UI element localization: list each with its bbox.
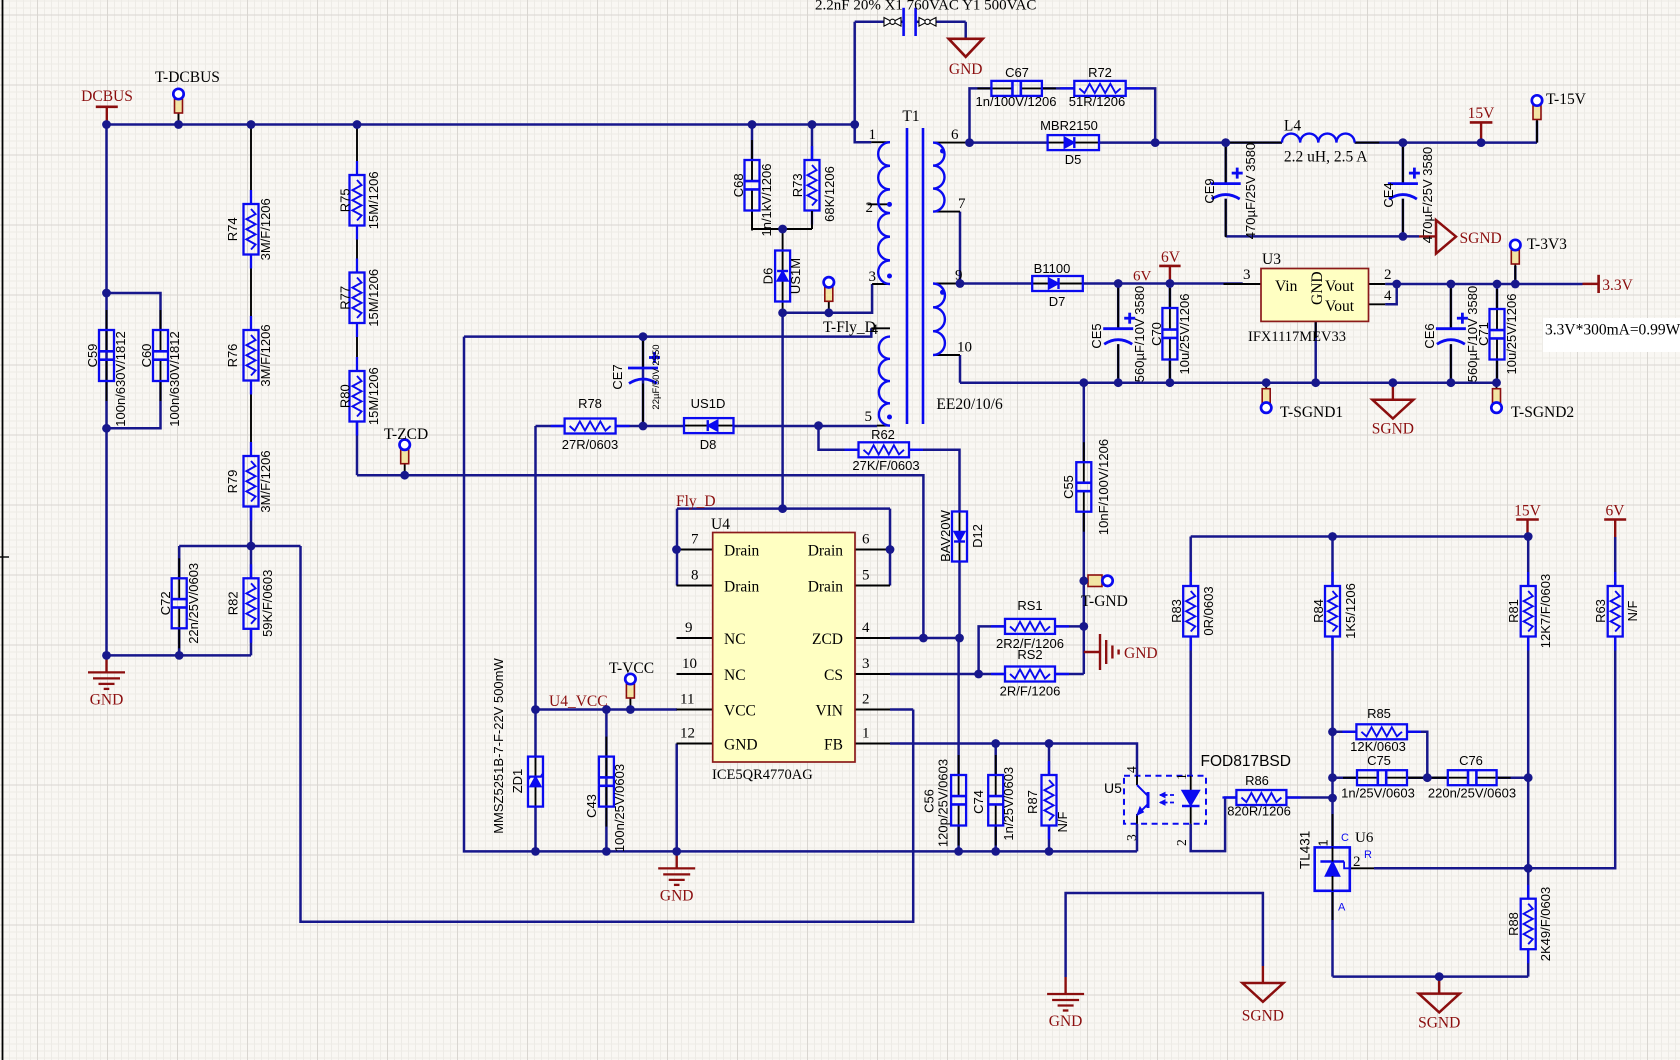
svg-text:SGND: SGND: [1418, 1015, 1460, 1032]
svg-text:470µF/25V 3580: 470µF/25V 3580: [1243, 143, 1258, 239]
svg-text:12K7/F/0603: 12K7/F/0603: [1538, 574, 1553, 648]
svg-text:C: C: [1341, 832, 1349, 844]
svg-text:L4: L4: [1284, 117, 1301, 134]
svg-text:D7: D7: [1049, 294, 1066, 309]
svg-text:R86: R86: [1245, 773, 1269, 788]
svg-text:GND: GND: [1049, 1013, 1083, 1030]
svg-text:C72: C72: [158, 591, 173, 615]
svg-text:R81: R81: [1506, 599, 1521, 623]
svg-text:15V: 15V: [1468, 105, 1496, 122]
svg-text:5: 5: [862, 568, 870, 584]
svg-text:C55: C55: [1061, 475, 1076, 499]
svg-text:1n/1kV/1206: 1n/1kV/1206: [759, 163, 774, 236]
svg-text:10: 10: [957, 340, 972, 356]
svg-text:6V: 6V: [1161, 249, 1181, 266]
svg-text:RS1: RS1: [1017, 598, 1042, 613]
svg-text:GND: GND: [660, 887, 694, 904]
svg-text:DCBUS: DCBUS: [81, 88, 133, 105]
svg-text:15M/1206: 15M/1206: [366, 171, 381, 229]
svg-text:3M/F/1206: 3M/F/1206: [258, 450, 273, 512]
svg-text:22µF/50V 2550: 22µF/50V 2550: [651, 344, 662, 409]
svg-text:2.2 uH, 2.5 A: 2.2 uH, 2.5 A: [1284, 149, 1368, 166]
svg-text:B1100: B1100: [1034, 261, 1071, 276]
svg-text:D6: D6: [761, 268, 776, 285]
svg-text:2: 2: [862, 692, 870, 708]
svg-text:27R/0603: 27R/0603: [562, 437, 618, 452]
svg-text:SGND: SGND: [1372, 421, 1414, 438]
svg-text:CS: CS: [824, 667, 843, 684]
svg-text:R82: R82: [226, 591, 241, 615]
svg-text:U3: U3: [1262, 251, 1281, 268]
svg-text:120p/25V/0603: 120p/25V/0603: [936, 759, 951, 847]
svg-text:15V: 15V: [1514, 503, 1542, 520]
svg-text:820R/1206: 820R/1206: [1227, 804, 1291, 819]
svg-text:CE6: CE6: [1422, 323, 1437, 348]
svg-text:2: 2: [1174, 839, 1189, 846]
svg-text:1: 1: [862, 726, 870, 742]
svg-text:T-SGND1: T-SGND1: [1280, 404, 1343, 421]
svg-text:3: 3: [862, 656, 870, 672]
svg-text:C75: C75: [1367, 753, 1391, 768]
svg-text:R74: R74: [225, 217, 240, 241]
svg-text:T-3V3: T-3V3: [1527, 236, 1567, 253]
svg-text:6V: 6V: [1606, 503, 1626, 520]
svg-text:1n/100V/1206: 1n/100V/1206: [976, 94, 1057, 109]
svg-text:Vout: Vout: [1325, 298, 1355, 315]
svg-text:3.3V: 3.3V: [1602, 277, 1633, 294]
svg-text:2R/F/1206: 2R/F/1206: [1000, 684, 1061, 699]
svg-text:10: 10: [682, 656, 697, 672]
svg-text:Vin: Vin: [1275, 278, 1298, 295]
svg-text:T-DCBUS: T-DCBUS: [155, 69, 220, 86]
svg-text:R76: R76: [225, 344, 240, 368]
svg-text:FOD817BSD: FOD817BSD: [1201, 753, 1291, 770]
svg-text:12K/0603: 12K/0603: [1350, 739, 1406, 754]
svg-text:R72: R72: [1088, 65, 1112, 80]
svg-text:U4_VCC: U4_VCC: [549, 693, 608, 710]
svg-text:VCC: VCC: [724, 703, 756, 720]
svg-text:3M/F/1206: 3M/F/1206: [258, 324, 273, 386]
svg-text:R84: R84: [1311, 599, 1326, 623]
svg-text:4: 4: [862, 620, 870, 636]
svg-text:100n/630V/1812: 100n/630V/1812: [113, 331, 128, 426]
svg-text:1n/25V/0603: 1n/25V/0603: [1341, 786, 1415, 801]
svg-text:NC: NC: [724, 631, 746, 648]
svg-text:5: 5: [865, 409, 873, 425]
svg-text:U6: U6: [1355, 830, 1374, 846]
svg-text:C43: C43: [584, 794, 599, 818]
svg-text:15M/1206: 15M/1206: [366, 367, 381, 425]
svg-text:15M/1206: 15M/1206: [366, 269, 381, 327]
svg-text:8: 8: [691, 568, 699, 584]
svg-text:T-Fly_D: T-Fly_D: [823, 319, 876, 336]
svg-text:560µF/10V 3580: 560µF/10V 3580: [1132, 286, 1147, 382]
svg-text:FB: FB: [824, 737, 843, 754]
svg-text:D8: D8: [700, 437, 717, 452]
svg-text:27K/F/0603: 27K/F/0603: [852, 458, 919, 473]
svg-text:1: 1: [1317, 840, 1331, 847]
svg-text:U4: U4: [711, 516, 730, 533]
svg-text:R78: R78: [578, 396, 602, 411]
svg-text:EE20/10/6: EE20/10/6: [936, 396, 1003, 413]
svg-text:22n/25V/0603: 22n/25V/0603: [186, 563, 201, 644]
svg-text:R77: R77: [338, 286, 353, 310]
svg-text:7: 7: [691, 532, 699, 548]
svg-text:R88: R88: [1506, 912, 1521, 936]
svg-text:R63: R63: [1593, 599, 1608, 623]
svg-text:T-ZCD: T-ZCD: [384, 426, 428, 443]
svg-text:GND: GND: [724, 737, 758, 754]
svg-text:6V: 6V: [1133, 269, 1152, 285]
svg-text:470µF/25V 3580: 470µF/25V 3580: [1420, 147, 1435, 243]
svg-text:R75: R75: [338, 188, 353, 212]
svg-text:1n/25V/0603: 1n/25V/0603: [1001, 767, 1016, 841]
svg-text:IFX1117MEV33: IFX1117MEV33: [1248, 329, 1346, 345]
svg-text:2: 2: [1384, 267, 1392, 283]
svg-text:T-SGND2: T-SGND2: [1511, 404, 1574, 421]
svg-text:RS2: RS2: [1017, 647, 1042, 662]
svg-text:Drain: Drain: [724, 579, 760, 596]
svg-text:C67: C67: [1005, 65, 1029, 80]
svg-text:SGND: SGND: [1460, 230, 1502, 247]
svg-text:10u/25V/1206: 10u/25V/1206: [1504, 294, 1519, 375]
svg-text:VIN: VIN: [815, 703, 843, 720]
svg-text:US1M: US1M: [788, 258, 803, 294]
svg-text:100n/25V/0603: 100n/25V/0603: [612, 764, 627, 852]
svg-text:ZCD: ZCD: [812, 631, 843, 648]
svg-text:R85: R85: [1367, 706, 1391, 721]
svg-text:MMSZ5251B-7-F-22V 500mW: MMSZ5251B-7-F-22V 500mW: [491, 658, 506, 834]
svg-text:ZD1: ZD1: [510, 769, 525, 794]
svg-text:ICE5QR4770AG: ICE5QR4770AG: [712, 767, 813, 783]
svg-text:59K/F/0603: 59K/F/0603: [260, 570, 275, 637]
svg-text:3.3V*300mA=0.99W: 3.3V*300mA=0.99W: [1545, 322, 1680, 339]
svg-text:3: 3: [869, 269, 877, 285]
svg-text:7: 7: [958, 196, 966, 212]
svg-text:12: 12: [680, 726, 695, 742]
svg-text:51R/1206: 51R/1206: [1069, 94, 1125, 109]
svg-text:R83: R83: [1169, 599, 1184, 623]
svg-text:T-VCC: T-VCC: [609, 660, 654, 677]
svg-text:6: 6: [951, 127, 959, 143]
svg-text:TL431: TL431: [1298, 831, 1313, 869]
svg-text:R87: R87: [1025, 790, 1040, 814]
svg-text:Drain: Drain: [808, 543, 844, 560]
svg-text:CE5: CE5: [1089, 323, 1104, 348]
svg-text:10u/25V/1206: 10u/25V/1206: [1177, 294, 1192, 375]
svg-text:T1: T1: [902, 108, 919, 125]
svg-text:Drain: Drain: [724, 543, 760, 560]
svg-text:D12: D12: [970, 524, 985, 548]
svg-text:R80: R80: [338, 384, 353, 408]
svg-text:CE7: CE7: [610, 364, 625, 389]
svg-text:Fly_D: Fly_D: [676, 493, 716, 510]
svg-text:C70: C70: [1149, 322, 1164, 346]
svg-text:1: 1: [1174, 773, 1189, 780]
svg-text:R62: R62: [871, 427, 895, 442]
svg-text:11: 11: [680, 692, 694, 708]
svg-text:1: 1: [869, 127, 877, 143]
svg-text:4: 4: [871, 322, 879, 338]
svg-text:4: 4: [1124, 766, 1139, 773]
svg-text:Drain: Drain: [808, 579, 844, 596]
svg-text:GND: GND: [1309, 271, 1326, 305]
svg-text:R79: R79: [225, 470, 240, 494]
svg-text:GND: GND: [90, 691, 124, 708]
svg-text:C68: C68: [731, 173, 746, 197]
svg-text:C56: C56: [922, 789, 937, 813]
svg-text:9: 9: [685, 620, 693, 636]
svg-text:T-15V: T-15V: [1546, 91, 1587, 108]
svg-text:Vout: Vout: [1325, 278, 1355, 295]
svg-text:100n/630V/1812: 100n/630V/1812: [167, 331, 182, 426]
svg-text:2K49/F/0603: 2K49/F/0603: [1538, 887, 1553, 961]
svg-text:D5: D5: [1065, 152, 1082, 167]
svg-text:6: 6: [862, 532, 870, 548]
svg-text:SGND: SGND: [1242, 1008, 1284, 1025]
svg-text:C71: C71: [1476, 322, 1491, 346]
svg-text:R73: R73: [790, 173, 805, 197]
svg-text:3: 3: [1124, 834, 1139, 841]
svg-text:C76: C76: [1459, 753, 1483, 768]
svg-text:BAV20W: BAV20W: [938, 509, 953, 562]
svg-text:2: 2: [866, 200, 874, 216]
svg-text:10nF/100V/1206: 10nF/100V/1206: [1096, 439, 1111, 535]
svg-text:220n/25V/0603: 220n/25V/0603: [1428, 786, 1516, 801]
svg-text:1K5/1206: 1K5/1206: [1343, 583, 1358, 639]
svg-text:C60: C60: [139, 344, 154, 368]
svg-text:R: R: [1364, 849, 1372, 861]
svg-text:2.2nF 20% X1 760VAC Y1 500VAC: 2.2nF 20% X1 760VAC Y1 500VAC: [815, 0, 1036, 14]
svg-text:CE9: CE9: [1202, 178, 1217, 203]
svg-text:N/F: N/F: [1055, 811, 1070, 832]
svg-text:U5: U5: [1104, 780, 1122, 796]
svg-text:MBR2150: MBR2150: [1040, 118, 1098, 133]
svg-text:US1D: US1D: [691, 396, 726, 411]
svg-text:GND: GND: [1124, 645, 1158, 662]
svg-text:NC: NC: [724, 667, 746, 684]
svg-text:4: 4: [1384, 288, 1392, 304]
svg-text:C59: C59: [85, 344, 100, 368]
svg-text:3: 3: [1243, 267, 1251, 283]
svg-text:GND: GND: [949, 61, 983, 78]
svg-text:0R/0603: 0R/0603: [1201, 586, 1216, 635]
svg-text:C74: C74: [971, 790, 986, 814]
svg-text:T-GND: T-GND: [1081, 593, 1128, 610]
svg-text:A: A: [1338, 902, 1346, 914]
svg-text:68K/1206: 68K/1206: [822, 166, 837, 222]
svg-text:3M/F/1206: 3M/F/1206: [258, 198, 273, 260]
svg-text:N/F: N/F: [1625, 600, 1640, 621]
svg-text:CE4: CE4: [1381, 182, 1396, 207]
svg-text:2: 2: [1353, 854, 1361, 870]
